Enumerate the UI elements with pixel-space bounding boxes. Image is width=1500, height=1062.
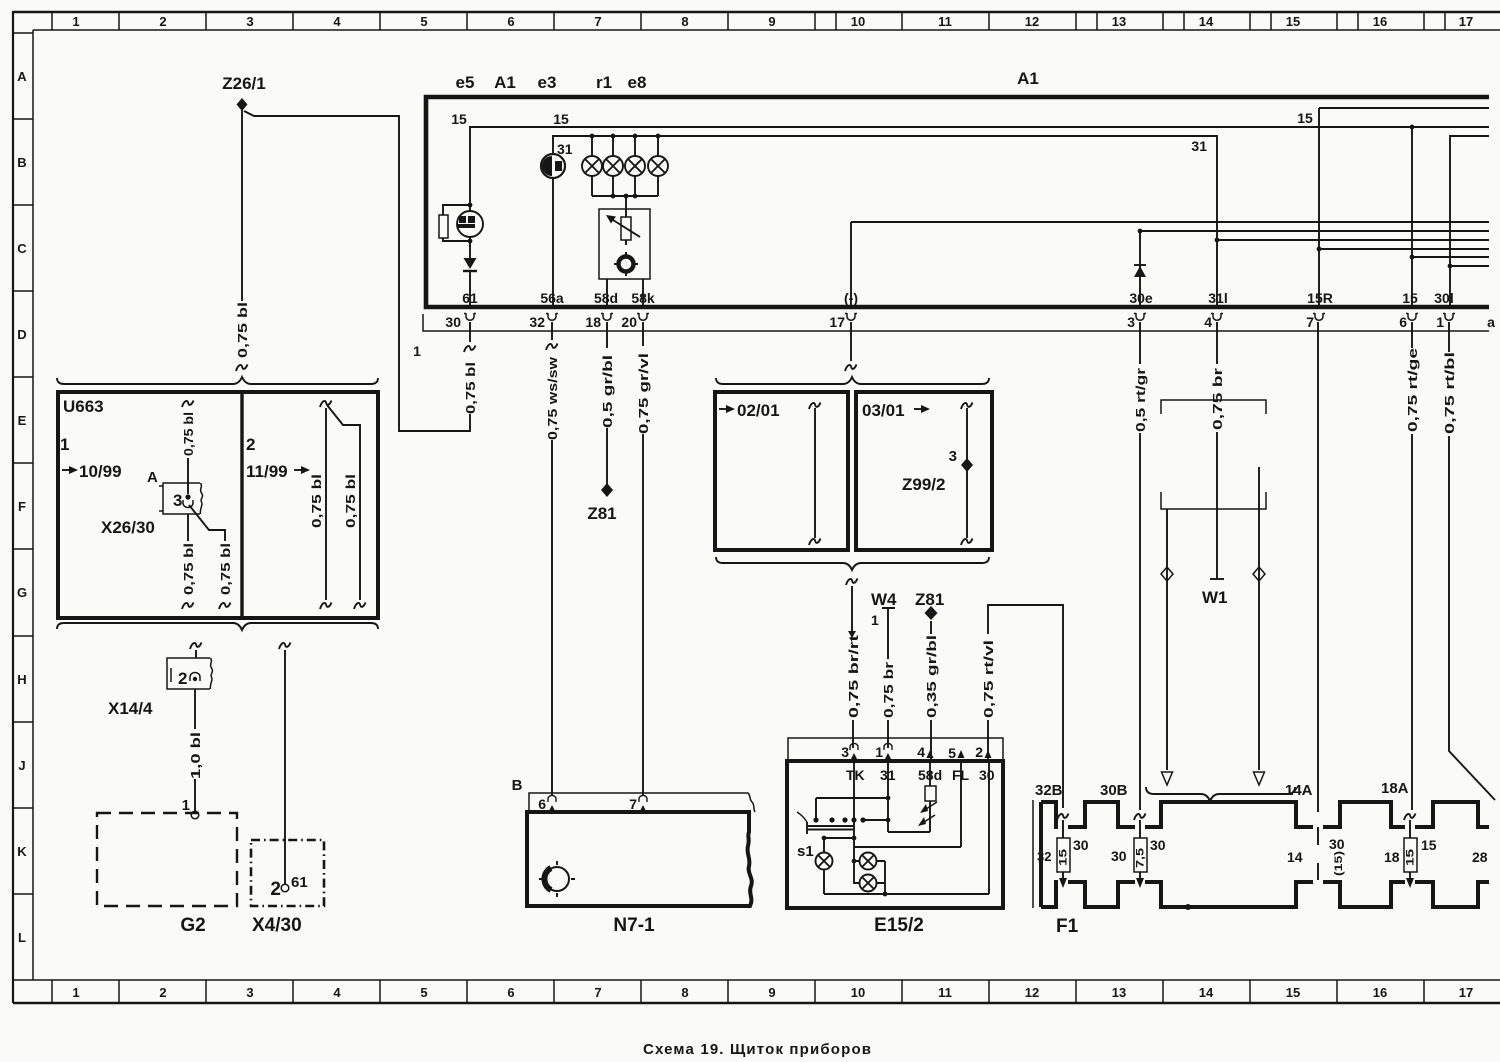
svg-text:30: 30 xyxy=(445,314,461,330)
svg-text:18: 18 xyxy=(1384,849,1400,865)
wire from U663 to X14/4 xyxy=(190,643,202,659)
fuse position 14 (no fuse) xyxy=(1287,827,1345,880)
svg-text:0,75 ws/sw: 0,75 ws/sw xyxy=(545,356,560,440)
svg-text:0,75 bl: 0,75 bl xyxy=(463,362,478,414)
svg-text:17: 17 xyxy=(1459,14,1473,29)
svg-text:14: 14 xyxy=(1199,14,1214,29)
wire 0,75 bl into X26/30 xyxy=(181,401,196,495)
svg-text:16: 16 xyxy=(1373,985,1387,1000)
svg-text:14: 14 xyxy=(1287,849,1303,865)
harness box 02/01 xyxy=(715,392,848,550)
diode on terminal 61 lead xyxy=(463,241,477,308)
wire 15R from A1 pin 7 to fuse box 14 xyxy=(1317,322,1319,812)
connector X4/30 dash-dot box xyxy=(251,840,324,906)
wire from U663 to X4/30 xyxy=(279,643,291,885)
screened lead left with arrow xyxy=(1161,509,1173,785)
junction dot on F1 bottom edge xyxy=(1185,904,1191,910)
svg-text:2: 2 xyxy=(178,669,187,688)
svg-text:15: 15 xyxy=(451,111,467,127)
U663 divider xyxy=(240,392,243,618)
svg-text:15: 15 xyxy=(553,111,569,127)
E15/2 terminal labels TK 31 58d FL 30 xyxy=(846,767,995,783)
svg-text:1: 1 xyxy=(875,744,883,760)
svg-text:58k: 58k xyxy=(631,290,655,306)
N7-1 connector bracket xyxy=(529,793,755,812)
svg-text:e5: e5 xyxy=(456,73,475,92)
svg-text:15: 15 xyxy=(1058,849,1070,866)
wire: 15R feed xyxy=(1297,108,1489,308)
svg-text:TK: TK xyxy=(846,767,865,783)
A1 pin 3 xyxy=(1127,313,1146,330)
svg-text:8: 8 xyxy=(681,985,688,1000)
svg-text:1: 1 xyxy=(182,797,190,814)
svg-text:N7-1: N7-1 xyxy=(613,915,655,936)
svg-text:30: 30 xyxy=(1150,837,1166,853)
svg-text:4: 4 xyxy=(1204,314,1212,330)
svg-text:56a: 56a xyxy=(540,290,564,306)
svg-text:X4/30: X4/30 xyxy=(252,915,302,936)
brace above 02/01 03/01 xyxy=(716,377,989,384)
svg-text:G: G xyxy=(17,585,27,600)
svg-text:5: 5 xyxy=(948,745,956,761)
svg-text:A1: A1 xyxy=(1017,69,1039,88)
svg-text:a: a xyxy=(1487,314,1495,330)
svg-text:2: 2 xyxy=(246,435,255,454)
svg-text:e8: e8 xyxy=(628,73,647,92)
wire: 31l bus junction xyxy=(1215,238,1489,243)
wire 0,75 bl right pair first xyxy=(309,401,332,610)
warning lamp 1 xyxy=(582,134,602,196)
svg-text:15: 15 xyxy=(1286,985,1300,1000)
svg-text:2: 2 xyxy=(270,879,281,900)
svg-text:6: 6 xyxy=(1399,314,1407,330)
svg-text:10: 10 xyxy=(851,14,865,29)
svg-text:7: 7 xyxy=(1306,314,1314,330)
ground connector W4 xyxy=(871,590,897,659)
wire 0,5 rt/gr from A1 pin 3 to fuse 30B xyxy=(1133,322,1148,810)
svg-text:3: 3 xyxy=(841,744,849,760)
svg-text:18: 18 xyxy=(585,314,601,330)
svg-text:2: 2 xyxy=(159,14,166,29)
left ruler ticks xyxy=(13,33,33,980)
warning lamp 2 xyxy=(603,134,623,199)
svg-text:K: K xyxy=(17,844,27,859)
brace above U663 xyxy=(57,377,378,384)
svg-text:A: A xyxy=(17,69,27,84)
svg-text:11/99: 11/99 xyxy=(246,462,288,481)
svg-text:7: 7 xyxy=(594,985,601,1000)
svg-text:0,75 br: 0,75 br xyxy=(1210,368,1225,430)
svg-text:B: B xyxy=(512,777,523,794)
control unit A1 box outline xyxy=(426,97,1489,307)
svg-text:1: 1 xyxy=(60,435,69,454)
svg-text:0,75 rt/vl: 0,75 rt/vl xyxy=(981,640,996,718)
E15/2 lamp left xyxy=(816,836,857,894)
lamp bottom bus xyxy=(592,194,658,217)
svg-text:15: 15 xyxy=(1405,849,1417,866)
svg-text:1: 1 xyxy=(871,612,879,628)
wire: lamp bus 31 inside A1 xyxy=(553,136,1217,308)
N7-1 pin 6 xyxy=(538,795,556,812)
E15/2 switch s1 xyxy=(797,796,890,860)
svg-text:0,75 bl: 0,75 bl xyxy=(181,412,196,456)
E15/2 internal TK lead xyxy=(853,761,855,861)
svg-text:0,75 gr/vl: 0,75 gr/vl xyxy=(636,353,651,434)
svg-text:2: 2 xyxy=(159,985,166,1000)
screened lead right with arrow xyxy=(1253,467,1265,785)
svg-text:H: H xyxy=(17,672,26,687)
E15/2 pin 4 xyxy=(917,744,933,760)
fuel gauge e5 symbol xyxy=(457,203,483,244)
svg-text:0,75 bl: 0,75 bl xyxy=(343,474,358,528)
svg-text:32: 32 xyxy=(529,314,545,330)
svg-text:A1: A1 xyxy=(494,73,516,92)
connector sleeve Z81 (mid) xyxy=(915,590,944,634)
brace below 02/01 03/01 xyxy=(716,557,989,570)
wire 0,75 br/rt to E15/2 pin 3 xyxy=(846,579,861,749)
svg-text:B: B xyxy=(17,155,26,170)
ground point W1 xyxy=(1202,579,1228,607)
svg-text:4: 4 xyxy=(917,744,925,760)
svg-text:0,75 bl: 0,75 bl xyxy=(181,543,196,595)
svg-text:32B: 32B xyxy=(1035,782,1063,799)
svg-text:U663: U663 xyxy=(63,397,104,416)
A1 pin 30 xyxy=(445,313,476,330)
harness box 03/01 xyxy=(856,392,992,550)
wire 0,75 rt/bl from A1 pin 1 xyxy=(1442,322,1495,800)
svg-text:3: 3 xyxy=(246,14,253,29)
svg-text:2: 2 xyxy=(975,744,983,760)
svg-text:12: 12 xyxy=(1025,14,1039,29)
svg-text:02/01: 02/01 xyxy=(737,401,780,420)
connector sleeve Z26/1 xyxy=(222,74,265,111)
svg-text:Z81: Z81 xyxy=(587,504,616,523)
svg-text:0,35 gr/bl: 0,35 gr/bl xyxy=(924,635,939,718)
sender G2 dashed box xyxy=(97,813,237,906)
svg-text:(15): (15) xyxy=(1333,851,1345,876)
svg-text:0,75 br/rt: 0,75 br/rt xyxy=(846,634,861,718)
svg-text:31: 31 xyxy=(557,141,573,157)
fuse box F1 left rail xyxy=(1032,800,1034,908)
E15/2 pin 1 xyxy=(875,743,892,760)
svg-text:30: 30 xyxy=(1111,848,1127,864)
svg-text:58d: 58d xyxy=(594,290,618,306)
svg-text:3: 3 xyxy=(1127,314,1135,330)
wire: 30e bus xyxy=(1138,229,1489,308)
N7-1 pin 7 xyxy=(629,795,647,812)
svg-text:0,75 bl: 0,75 bl xyxy=(235,302,250,358)
svg-text:6: 6 xyxy=(507,985,514,1000)
left ruler letters A-L xyxy=(17,69,27,945)
dimmer rheostat r1 box xyxy=(599,209,650,308)
svg-text:6: 6 xyxy=(507,14,514,29)
svg-text:1,0 bl: 1,0 bl xyxy=(188,732,203,779)
top ruler numbers 1-17 xyxy=(72,14,1473,29)
wire 0,75 bl branch via diagonal xyxy=(189,505,233,609)
A1 connector bracket row xyxy=(413,314,1489,359)
wire 0,5 gr/bl from A1 pin 18 to Z81 xyxy=(600,322,615,484)
warning lamp 4 xyxy=(648,134,668,196)
svg-text:13: 13 xyxy=(1112,985,1126,1000)
wire: terminal 15 feed inside A1 xyxy=(451,111,1489,205)
svg-text:7: 7 xyxy=(629,796,637,812)
bottom ruler numbers 1-17 xyxy=(72,985,1473,1000)
top ruler ticks xyxy=(52,12,1445,30)
brace over fuse box section 14A xyxy=(1146,787,1295,801)
svg-text:11: 11 xyxy=(938,14,952,29)
svg-text:30: 30 xyxy=(1329,836,1345,852)
A1 pin 4 xyxy=(1204,313,1223,330)
wire 0,35 gr/bl to E15/2 pin 4 xyxy=(924,635,939,760)
connector X26/30 xyxy=(159,483,202,514)
E15/2 pin 2 xyxy=(975,744,991,760)
svg-text:F: F xyxy=(18,499,26,514)
svg-text:Z26/1: Z26/1 xyxy=(222,74,265,93)
wire 0,75 ws/sw from A1 pin 32 to N7-1 pin 6 xyxy=(545,322,560,795)
coupler U663 box xyxy=(58,392,378,618)
resistor beside fuel gauge xyxy=(439,205,470,241)
svg-text:61: 61 xyxy=(462,290,478,306)
wire from Z26/1 to A1 pin 30 xyxy=(244,111,464,431)
wire 0,75 rt/ge from A1 pin 6 to fuse 18A xyxy=(1405,322,1420,810)
svg-text:30: 30 xyxy=(979,767,995,783)
svg-text:E15/2: E15/2 xyxy=(874,915,924,936)
svg-text:L: L xyxy=(18,930,26,945)
wire: 30l feed xyxy=(1448,136,1489,308)
brace below U663 xyxy=(57,623,378,630)
E15/2 internal 30 lead xyxy=(988,761,990,894)
svg-text:J: J xyxy=(18,758,25,773)
svg-text:C: C xyxy=(17,241,27,256)
E15/2 bottom feed wire xyxy=(824,893,989,895)
svg-text:0,75 rt/ge: 0,75 rt/ge xyxy=(1405,348,1420,432)
svg-text:12: 12 xyxy=(1025,985,1039,1000)
fuse 32B xyxy=(1037,814,1089,889)
A1 pin 32 xyxy=(529,313,558,330)
svg-text:31: 31 xyxy=(1191,138,1207,154)
02/01 internal lead xyxy=(809,403,821,546)
svg-text:13: 13 xyxy=(1112,14,1126,29)
svg-text:16: 16 xyxy=(1373,14,1387,29)
high-beam indicator lamp 31 xyxy=(541,141,573,308)
svg-text:E: E xyxy=(18,413,27,428)
svg-text:1: 1 xyxy=(72,985,79,1000)
A1 pin 17 xyxy=(829,313,857,330)
connector sleeve Z81 (left) xyxy=(587,483,616,523)
svg-text:r1: r1 xyxy=(596,73,612,92)
svg-text:X26/30: X26/30 xyxy=(101,518,155,537)
svg-text:5: 5 xyxy=(420,14,427,29)
E15/2 lamp lower xyxy=(854,861,887,896)
wire 0,75 bl below A1 pin 30 xyxy=(463,322,478,431)
svg-text:1: 1 xyxy=(72,14,79,29)
svg-text:11: 11 xyxy=(938,985,952,1000)
svg-text:Z99/2: Z99/2 xyxy=(902,475,945,494)
svg-text:G2: G2 xyxy=(180,915,205,936)
diode on 30e lead xyxy=(1134,265,1146,277)
A1 pin 1 xyxy=(1436,313,1455,330)
E15/2 connector bracket xyxy=(788,738,1003,761)
svg-text:30B: 30B xyxy=(1100,782,1128,799)
svg-text:4: 4 xyxy=(333,985,341,1000)
fuse box F1 outline xyxy=(1041,802,1489,907)
label 11/99 and arrow xyxy=(246,462,310,481)
svg-text:15: 15 xyxy=(1402,290,1418,306)
connector sleeve Z99/2 xyxy=(902,448,973,494)
svg-text:0,75 bl: 0,75 bl xyxy=(309,474,324,528)
svg-text:Z81: Z81 xyxy=(915,590,944,609)
svg-text:30: 30 xyxy=(1073,837,1089,853)
wire 0,75 bl from Z26/1 to U663 xyxy=(235,110,250,371)
svg-text:7,5: 7,5 xyxy=(1135,848,1147,868)
A1 pin 18 xyxy=(585,313,613,330)
svg-text:6: 6 xyxy=(538,796,546,812)
E15/2 internal FL lead xyxy=(854,761,961,847)
svg-text:15: 15 xyxy=(1297,110,1313,126)
svg-text:3: 3 xyxy=(246,985,253,1000)
wire 0,75 bl right pair second xyxy=(327,405,366,609)
svg-text:30l: 30l xyxy=(1434,290,1453,306)
svg-text:17: 17 xyxy=(829,314,845,330)
X4/30 terminal 2 / 61 xyxy=(270,874,307,900)
svg-text:15: 15 xyxy=(1286,14,1300,29)
svg-text:3: 3 xyxy=(949,448,957,465)
svg-text:20: 20 xyxy=(621,314,637,330)
connector bracket lower (W1 group) xyxy=(1161,492,1266,509)
svg-text:9: 9 xyxy=(768,14,775,29)
03/01 internal lead with Z99/2 xyxy=(961,403,973,546)
A1 pin 6 xyxy=(1399,313,1418,330)
A1 pin 20 xyxy=(621,313,649,330)
connector bracket upper (W1 group) xyxy=(1161,400,1266,414)
svg-text:30e: 30e xyxy=(1129,290,1153,306)
svg-text:3: 3 xyxy=(173,491,182,510)
svg-text:0,75 br: 0,75 br xyxy=(881,662,896,718)
svg-text:D: D xyxy=(17,327,26,342)
svg-text:03/01: 03/01 xyxy=(862,401,905,420)
svg-text:0,75 bl: 0,75 bl xyxy=(218,543,233,595)
svg-text:14: 14 xyxy=(1199,985,1214,1000)
svg-text:61: 61 xyxy=(291,874,308,891)
svg-text:W4: W4 xyxy=(871,590,897,609)
svg-text:e3: e3 xyxy=(538,73,557,92)
E15/2 pin 5 xyxy=(948,745,964,761)
svg-text:4: 4 xyxy=(333,14,341,29)
fuse 18A xyxy=(1384,814,1437,889)
svg-text:32: 32 xyxy=(1037,849,1051,864)
svg-text:1: 1 xyxy=(413,343,421,359)
svg-text:0,5 rt/gr: 0,5 rt/gr xyxy=(1133,368,1148,432)
svg-text:8: 8 xyxy=(681,14,688,29)
G2 terminal 1 xyxy=(182,797,199,819)
wire 0,75 bl below X26/30 left xyxy=(181,514,196,609)
connector X14/4 xyxy=(167,658,212,689)
svg-text:17: 17 xyxy=(1459,985,1473,1000)
E15/2 dimmer resistor on 58d xyxy=(888,761,937,832)
svg-text:0,75 rt/bl: 0,75 rt/bl xyxy=(1442,352,1457,434)
svg-text:Схема 19. Щиток приборов: Схема 19. Щиток приборов xyxy=(643,1041,871,1058)
control unit N7-1 box xyxy=(527,812,752,906)
wire 0,75 gr/vl from A1 pin 20 to N7-1 pin 7 xyxy=(636,322,651,795)
bottom ruler ticks xyxy=(52,980,1424,1002)
svg-text:X14/4: X14/4 xyxy=(108,699,153,718)
wire: (-) bus to terminal 17 xyxy=(851,222,1489,308)
instrument symbol inside N7-1 xyxy=(539,861,575,897)
svg-text:28: 28 xyxy=(1472,849,1488,865)
svg-text:31l: 31l xyxy=(1208,290,1227,306)
svg-text:1: 1 xyxy=(1436,314,1444,330)
svg-text:9: 9 xyxy=(768,985,775,1000)
svg-text:0,5 gr/bl: 0,5 gr/bl xyxy=(600,355,615,428)
E15/2 internal 31 lead xyxy=(887,761,889,832)
svg-text:W1: W1 xyxy=(1202,588,1228,607)
wire 0,75 br from A1 pin 4 to ground W1 xyxy=(1210,322,1225,579)
svg-text:s1: s1 xyxy=(797,843,814,860)
svg-text:A: A xyxy=(147,469,158,486)
svg-text:14A: 14A xyxy=(1285,782,1313,799)
svg-text:10: 10 xyxy=(851,985,865,1000)
E15/2 lamp middle xyxy=(852,853,885,870)
svg-text:18A: 18A xyxy=(1381,780,1409,797)
svg-text:F1: F1 xyxy=(1056,916,1079,937)
fuse 30B xyxy=(1111,814,1166,889)
arrow and label 10/99 xyxy=(62,462,122,481)
svg-text:5: 5 xyxy=(420,985,427,1000)
svg-text:7: 7 xyxy=(594,14,601,29)
E15/2 pin 3 xyxy=(841,743,858,760)
wire 1,0 bl from X14/4 to G2 xyxy=(188,689,203,811)
wire: terminal 15 junction xyxy=(1410,125,1489,308)
A1 pin 7 xyxy=(1306,313,1325,330)
svg-text:10/99: 10/99 xyxy=(79,462,122,481)
warning lamp 3 xyxy=(625,134,645,199)
svg-text:15R: 15R xyxy=(1307,290,1333,306)
svg-text:15: 15 xyxy=(1421,837,1437,853)
wire 0,75 br to E15/2 pin 1 xyxy=(881,662,896,748)
wire (-) from A1 pin 17 xyxy=(845,322,857,371)
light switch E15/2 box xyxy=(787,761,1003,908)
wire 0,75 rt/vl from fuse 32B to E15/2 pin 2 xyxy=(981,605,1063,808)
